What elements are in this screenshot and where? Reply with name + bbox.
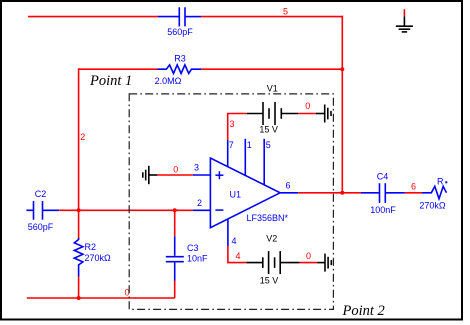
svg-text:V1: V1 (267, 84, 278, 94)
wire C3 bottom riser (174, 281, 176, 299)
svg-text:5: 5 (266, 140, 271, 150)
opamp minus sign (215, 209, 223, 211)
wire left vertical net2 upper (78, 68, 80, 210)
resistor R (clipped) (422, 186, 447, 198)
svg-text:5: 5 (283, 7, 288, 17)
svg-text:100nF: 100nF (370, 205, 396, 215)
svg-text:2.0MΩ: 2.0MΩ (155, 76, 182, 86)
battery V2 (246, 251, 299, 274)
capacitor C1 560pF (top) (158, 7, 201, 26)
svg-text:R2: R2 (85, 242, 97, 252)
junction bottom rail (77, 296, 81, 300)
svg-text:15 V: 15 V (259, 125, 278, 135)
wire top net5 left segment (28, 16, 158, 18)
svg-text:6: 6 (285, 180, 290, 190)
svg-text:C2: C2 (35, 189, 47, 199)
svg-text:2: 2 (80, 132, 85, 142)
wire R3 row right segment (201, 68, 342, 70)
wire - input lead pin2 (193, 209, 211, 211)
svg-text:6: 6 (411, 181, 416, 191)
wire ground to + input net0 (157, 174, 192, 176)
wire bottom rail (27, 297, 175, 299)
svg-text:V2: V2 (266, 234, 277, 244)
svg-text:560pF: 560pF (28, 222, 54, 232)
wire net6 C4 to R (405, 192, 422, 194)
pin 1 blue stub (244, 139, 246, 176)
svg-text:7: 7 (229, 140, 234, 150)
wire net4 pin4 drop (228, 246, 246, 262)
svg-text:0: 0 (173, 164, 178, 174)
junction C2 (77, 208, 81, 212)
wire R3 row left segment (79, 68, 159, 70)
svg-text:2: 2 (197, 198, 202, 208)
capacitor C4 (361, 183, 405, 203)
wire output to C4 (298, 192, 361, 194)
opamp + input lead pin3 (193, 174, 211, 176)
dash-dot box (129, 94, 333, 310)
svg-text:C4: C4 (377, 171, 389, 181)
svg-text:1: 1 (247, 140, 252, 150)
pin 5 blue stub (263, 139, 265, 185)
resistor R2 (74, 238, 83, 277)
pin 7 blue stub (227, 140, 229, 167)
capacitor C2 (26, 201, 59, 220)
ground at opamp + input (143, 166, 158, 184)
ground top right (396, 16, 413, 32)
wire C3 top to net2 (174, 210, 176, 237)
wire left vertical to R2 (78, 210, 80, 239)
junction C3 top (173, 208, 177, 212)
ground at V2 (318, 254, 332, 272)
svg-text:560pF: 560pF (167, 27, 193, 37)
svg-text:LF356BN*: LF356BN* (247, 213, 289, 223)
wire R2 bottom to bottom rail (78, 277, 80, 299)
wire stub top-right ground (403, 9, 405, 16)
svg-text:3: 3 (229, 119, 234, 129)
svg-text:U1: U1 (230, 190, 242, 200)
svg-text:4: 4 (232, 236, 237, 246)
opamp plus sign (215, 171, 223, 179)
svg-text:270kΩ: 270kΩ (419, 201, 446, 211)
svg-text:Point 2: Point 2 (342, 303, 385, 319)
junction output (340, 191, 344, 195)
wire right vertical net5 (341, 16, 343, 193)
battery V1 (247, 102, 298, 125)
svg-text:R3: R3 (174, 54, 186, 64)
svg-text:4: 4 (235, 251, 240, 261)
wire C2 to pin2 net (59, 209, 193, 211)
svg-text:R: R (437, 176, 444, 186)
svg-text:Point 1: Point 1 (89, 73, 132, 89)
svg-text:0: 0 (305, 101, 310, 111)
svg-text:0: 0 (306, 251, 311, 261)
svg-text:15 V: 15 V (260, 275, 279, 285)
svg-text:10nF: 10nF (187, 254, 208, 264)
label R dot (445, 181, 447, 183)
wire V1 to ground net0 (298, 113, 316, 115)
svg-text:270kΩ: 270kΩ (85, 253, 112, 263)
junction top-right (340, 67, 344, 71)
svg-text:3: 3 (194, 162, 199, 172)
op-amp U1 triangle (210, 158, 280, 228)
wire top net5 right segment (201, 16, 343, 18)
ground at V1 (316, 105, 331, 123)
wire net3 pin7 riser (228, 114, 247, 141)
resistor R3 (158, 65, 202, 74)
svg-text:C3: C3 (187, 243, 199, 253)
wire V2 to ground net0 (300, 262, 318, 264)
capacitor C3 (166, 236, 184, 280)
opamp output lead pin6 (280, 192, 298, 194)
pin 4 blue stub (227, 220, 229, 247)
